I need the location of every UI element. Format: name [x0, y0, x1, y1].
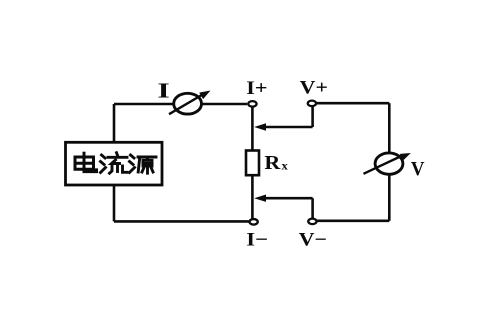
arrowhead on V- sense wire pointing at Rx bottom lead [254, 195, 266, 202]
svg-text:V: V [411, 158, 425, 180]
label 电流源 (current source) drawn as strokes: char 电 [75, 153, 97, 171]
char 流 [101, 153, 128, 174]
node I- terminal circle [249, 219, 257, 225]
svg-text:V−: V− [299, 230, 327, 251]
node V+ terminal circle [308, 101, 316, 107]
arrowhead on V+ sense wire pointing at Rx top lead [254, 123, 266, 130]
wire top-left horizontal from current source branch to ammeter [114, 103, 173, 106]
svg-text:x: x [282, 158, 288, 172]
char 源 [130, 155, 157, 173]
wire V- sense horizontal to Rx bottom lead [263, 197, 313, 200]
wire right vertical bottom (voltmeter to corner) [388, 175, 391, 221]
wire left vertical bottom (box bottom to corner) [113, 185, 116, 221]
node V- terminal circle [308, 219, 316, 225]
wire bottom-right corner to V- node [317, 220, 389, 223]
svg-text:R: R [264, 153, 281, 174]
voltmeter arrow [364, 153, 411, 174]
wire right vertical top (corner to voltmeter) [388, 103, 391, 152]
wire center vertical I+ to Rx [251, 107, 254, 150]
resistor Rx body [246, 151, 259, 176]
wire V+ sense horizontal to Rx top lead [263, 126, 313, 129]
wire top right of ammeter to I+ node [203, 103, 248, 106]
wire center vertical Rx to I- node [251, 175, 254, 219]
voltmeter U2 circle [375, 153, 403, 174]
svg-text:I: I [157, 79, 169, 103]
wire left vertical top (corner to box top) [113, 104, 116, 142]
wire bottom-left horizontal I- node to left branch [114, 220, 249, 223]
wire V+ node to top-right corner [317, 102, 390, 105]
ammeter U1 circle [174, 93, 202, 114]
ammeter arrow [169, 91, 211, 115]
wire V+ sense stub down [311, 107, 314, 127]
current source box 电流源 [66, 142, 163, 185]
svg-text:I−: I− [246, 230, 268, 251]
svg-text:V+: V+ [300, 78, 328, 99]
node I+ terminal circle [248, 101, 256, 107]
wire V- sense stub up [311, 198, 314, 218]
svg-text:I+: I+ [246, 78, 267, 99]
